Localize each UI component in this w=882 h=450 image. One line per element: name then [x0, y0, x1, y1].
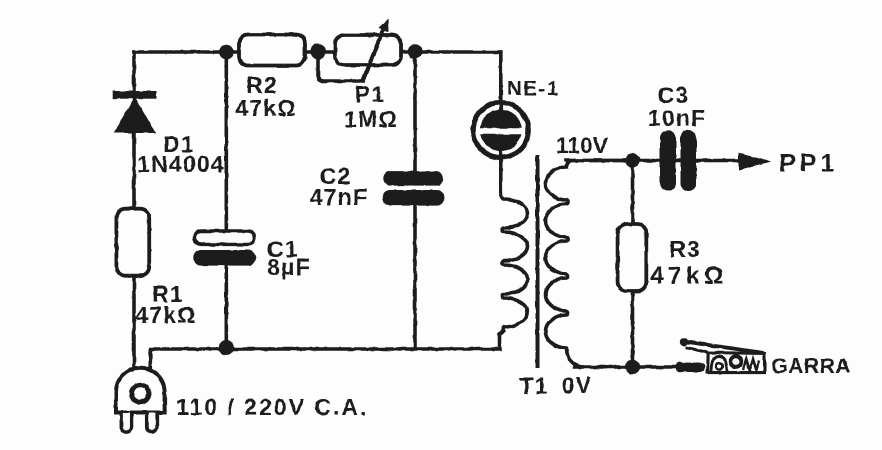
svg-text:0V: 0V: [562, 372, 593, 398]
svg-text:T1: T1: [519, 373, 548, 399]
svg-text:47kΩ: 47kΩ: [135, 302, 197, 328]
svg-text:47kΩ: 47kΩ: [650, 263, 728, 290]
svg-text:8µF: 8µF: [267, 254, 311, 280]
svg-text:110V: 110V: [556, 133, 608, 158]
svg-text:10nF: 10nF: [648, 105, 706, 131]
svg-text:47kΩ: 47kΩ: [235, 95, 297, 121]
svg-text:NE-1: NE-1: [507, 77, 560, 100]
svg-text:P1: P1: [355, 81, 386, 107]
svg-text:110 / 220V C.A.: 110 / 220V C.A.: [176, 394, 368, 420]
svg-text:PP1: PP1: [779, 150, 838, 178]
svg-text:1N4004: 1N4004: [137, 151, 225, 177]
svg-text:1MΩ: 1MΩ: [344, 106, 398, 132]
svg-text:R3: R3: [669, 236, 701, 262]
svg-text:47nF: 47nF: [310, 184, 368, 210]
svg-text:GARRA: GARRA: [771, 354, 851, 378]
